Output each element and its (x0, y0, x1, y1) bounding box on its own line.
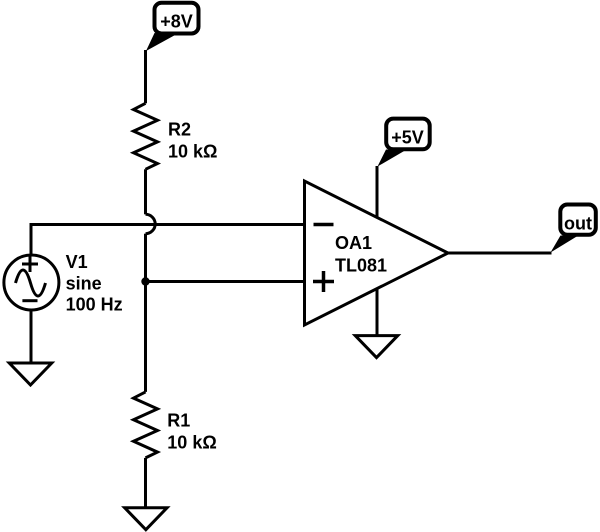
svg-text:R2: R2 (168, 119, 191, 139)
net label out (551, 205, 596, 253)
resistor R2 (134, 103, 158, 169)
wire +5V to op-amp power pin (376, 166, 379, 218)
wire hop over minus-input wire (146, 214, 156, 233)
svg-text:sine: sine (66, 273, 102, 293)
output wire (448, 252, 552, 255)
wire R2 to hop (144, 169, 147, 214)
svg-text:R1: R1 (167, 411, 190, 431)
svg-text:10 kΩ: 10 kΩ (168, 142, 217, 162)
resistor R1 (134, 392, 158, 458)
svg-text:10 kΩ: 10 kΩ (167, 432, 216, 452)
voltage source V1 (4, 255, 59, 310)
wire junction to plus input (146, 280, 305, 283)
wire R1 to ground (144, 458, 147, 508)
svg-text:OA1: OA1 (335, 233, 372, 253)
net label +8V (146, 3, 199, 51)
svg-text:100 Hz: 100 Hz (66, 295, 123, 315)
svg-text:out: out (564, 213, 592, 233)
net label +5V (378, 119, 430, 167)
svg-text:V1: V1 (66, 252, 88, 272)
svg-text:+5V: +5V (391, 127, 424, 147)
op-amp OA1 (305, 181, 449, 325)
wire +8V to R2 (144, 50, 147, 103)
wire hop to junction (144, 234, 147, 282)
ground under R1 (125, 508, 168, 530)
wire op-amp to ground (376, 288, 379, 335)
wire V1 to minus input (horizontal) (31, 225, 305, 256)
junction node (141, 277, 149, 285)
wire V1 to ground (30, 310, 33, 363)
svg-text:TL081: TL081 (335, 255, 387, 275)
ground under V1 (9, 363, 52, 385)
svg-text:+8V: +8V (160, 12, 193, 32)
wire junction to R1 (144, 282, 147, 392)
ground under op-amp (355, 336, 398, 358)
